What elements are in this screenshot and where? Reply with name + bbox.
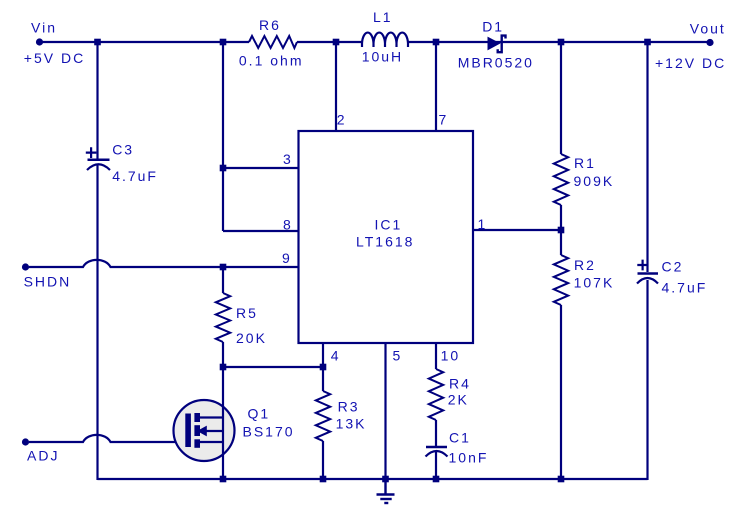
wire pin 5 vertical to ground (384, 343, 386, 480)
wire SHDN to pin 9 with hop over left rail (29, 260, 299, 267)
transistor Q1 body stub with arrow (197, 426, 223, 437)
wire R3 bottom to bottom rail (322, 441, 324, 480)
wire top rail R6 to L1 (297, 41, 362, 43)
terminal dot ADJ (22, 438, 29, 445)
transistor Q1 drain stub (200, 416, 224, 418)
svg-text:Vout: Vout (690, 20, 726, 36)
resistor R1 (554, 154, 568, 205)
wire ADJ to Q1 gate with hop over left rail (29, 435, 186, 442)
svg-text:10uH: 10uH (362, 49, 403, 65)
wire vertical x=223 from top rail to pin 8 (222, 42, 224, 231)
capacitor C2 arc plate (637, 278, 658, 284)
svg-text:13K: 13K (336, 415, 367, 431)
capacitor C2 plate (638, 272, 659, 275)
svg-text:Q1: Q1 (248, 405, 271, 421)
wire R4 bottom to C1 (435, 420, 437, 446)
terminal dot SHDN (22, 263, 29, 270)
svg-text:ADJ: ADJ (27, 448, 59, 464)
diode D1 anode triangle (488, 37, 501, 51)
svg-text:R3: R3 (338, 399, 360, 415)
capacitor C1 plate (426, 446, 447, 449)
wire R1 branch vertical upper (560, 42, 562, 154)
svg-text:10nF: 10nF (449, 450, 489, 466)
inductor L1 (362, 33, 408, 47)
svg-text:10: 10 (441, 347, 461, 363)
svg-text:8: 8 (283, 217, 293, 233)
wire R2 bottom to bottom rail (560, 305, 562, 480)
svg-text:7: 7 (439, 112, 449, 128)
wire R5 bottom to Q1 drain and down to bottom rail (222, 342, 224, 367)
svg-text:909K: 909K (574, 173, 615, 189)
svg-text:2K: 2K (448, 391, 469, 407)
wire pin 3 horizontal (223, 167, 299, 169)
svg-text:0.1 ohm: 0.1 ohm (239, 52, 304, 68)
svg-text:R2: R2 (574, 257, 596, 273)
capacitor C3 plus sign (86, 147, 97, 158)
svg-text:20K: 20K (236, 330, 267, 346)
svg-text:C3: C3 (112, 142, 134, 158)
svg-text:2: 2 (337, 112, 347, 128)
wire pin4 link horizontal (223, 366, 323, 368)
svg-text:L1: L1 (373, 9, 393, 25)
capacitor C2 plus sign (637, 260, 648, 271)
transistor Q1 drain-source vertical (222, 367, 224, 480)
wire C2 branch vertical upper (646, 42, 648, 272)
svg-text:1: 1 (478, 216, 488, 232)
svg-text:IC1: IC1 (375, 216, 403, 232)
svg-text:4.7uF: 4.7uF (112, 168, 158, 184)
resistor R5 (216, 293, 230, 342)
capacitor C3 arc plate (87, 164, 110, 170)
resistor R6 (249, 36, 297, 48)
transistor Q1 circle body (174, 400, 235, 461)
wire pin 8 horizontal (223, 230, 299, 232)
IC U1 LT1618 box (299, 131, 474, 343)
svg-text:107K: 107K (574, 275, 615, 291)
svg-text:Vin: Vin (31, 20, 57, 36)
resistor R2 (554, 255, 568, 305)
wire top rail L1 to Vout (408, 41, 710, 43)
svg-text:R4: R4 (449, 376, 471, 392)
wire R1 to pin1 node to R2 (560, 205, 562, 255)
svg-text:BS170: BS170 (243, 423, 295, 439)
svg-text:+5V DC: +5V DC (24, 50, 85, 66)
terminal dot Vout (706, 39, 713, 46)
svg-text:C1: C1 (449, 429, 471, 445)
wire pin 4 vertical to R3 (322, 343, 324, 391)
wire pin 2 vertical (335, 42, 337, 132)
svg-text:R6: R6 (259, 17, 281, 33)
svg-text:9: 9 (282, 250, 292, 266)
svg-text:D1: D1 (482, 19, 504, 35)
wire pin 7 vertical (435, 42, 437, 132)
svg-text:LT1618: LT1618 (356, 233, 414, 249)
wire left vertical rail x=97 lower (96, 164, 98, 480)
svg-text:R5: R5 (236, 305, 258, 321)
transistor Q1 channel segments (194, 413, 200, 448)
svg-text:MBR0520: MBR0520 (458, 54, 534, 70)
svg-text:3: 3 (283, 151, 293, 167)
resistor R4 (429, 369, 443, 420)
wire top rail left (Vin to R6) (40, 41, 250, 43)
svg-text:4.7uF: 4.7uF (662, 280, 708, 296)
capacitor C3 plate (88, 159, 110, 162)
ground symbol (377, 479, 395, 503)
wire left vertical rail x=97 upper (96, 42, 98, 159)
svg-text:C2: C2 (662, 259, 684, 275)
wire pin 10 vertical to R4 (435, 343, 437, 369)
svg-text:5: 5 (393, 347, 403, 363)
wire bottom rail (98, 478, 648, 480)
wire pin 9 node down to R5 (222, 267, 224, 293)
svg-text:+12V DC: +12V DC (655, 55, 726, 71)
wire C1 bottom to bottom rail (435, 452, 437, 480)
diode D1 schottky cathode bar (498, 36, 506, 53)
transistor Q1 gate bar (185, 414, 191, 448)
transistor Q1 source stub (200, 441, 224, 443)
wire pin 1 horizontal (473, 229, 561, 231)
svg-text:4: 4 (331, 347, 341, 363)
svg-text:SHDN: SHDN (24, 274, 72, 290)
svg-text:R1: R1 (574, 155, 596, 171)
resistor R3 (316, 391, 330, 441)
wire C2 branch vertical lower (646, 280, 648, 480)
capacitor C1 arc plate (426, 451, 448, 457)
terminal dot Vin (36, 38, 43, 45)
